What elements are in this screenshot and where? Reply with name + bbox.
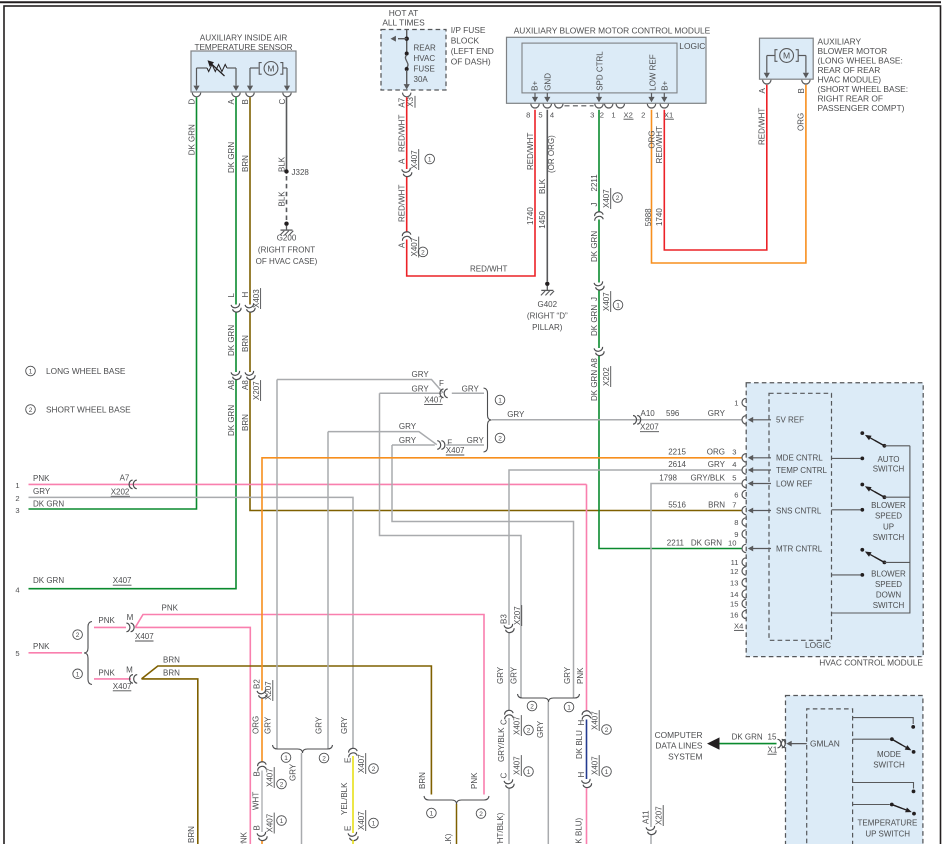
- wire GRY 596 to HVAC control module pin 2: [492, 419, 742, 421]
- svg-text:12: 12: [730, 567, 738, 576]
- svg-text:1: 1: [15, 481, 19, 490]
- svg-text:OF HVAC CASE): OF HVAC CASE): [256, 257, 318, 266]
- auto switch: [860, 431, 864, 435]
- svg-text:H: H: [577, 720, 586, 726]
- blower motor M symbol: [767, 55, 775, 57]
- connector X407 pin J (1) on DK GRN: [594, 281, 605, 291]
- svg-text:ALL TIMES: ALL TIMES: [382, 18, 425, 28]
- svg-text:X407: X407: [513, 716, 522, 735]
- svg-text:A8: A8: [227, 380, 236, 390]
- page border frame: [0, 1, 941, 3]
- svg-text:PNK: PNK: [33, 642, 50, 651]
- svg-text:LOGIC: LOGIC: [805, 640, 831, 650]
- brace splitting row 5 into (2) and (1): [84, 622, 92, 685]
- svg-text:6: 6: [734, 490, 738, 499]
- svg-text:GRY: GRY: [708, 409, 726, 418]
- svg-text:WHT: WHT: [251, 792, 260, 810]
- svg-text:DK BLU: DK BLU: [575, 730, 584, 759]
- ground G200: [284, 222, 288, 226]
- svg-text:LONG WHEEL BASE: LONG WHEEL BASE: [46, 366, 126, 376]
- svg-text:H: H: [241, 292, 250, 298]
- svg-text:A10: A10: [641, 409, 656, 418]
- svg-text:PNK: PNK: [162, 604, 179, 613]
- svg-text:E: E: [343, 758, 352, 763]
- module pin arrows and cups: [534, 93, 536, 98]
- svg-text:D: D: [188, 99, 197, 105]
- svg-text:GRY: GRY: [340, 716, 349, 734]
- wire DK BLU between H connectors: [586, 720, 588, 780]
- svg-text:PASSENGER COMPT): PASSENGER COMPT): [818, 103, 905, 113]
- svg-text:SPEED: SPEED: [875, 580, 902, 589]
- svg-text:COMPUTER: COMPUTER: [655, 730, 703, 740]
- svg-text:SWITCH: SWITCH: [873, 601, 905, 610]
- merged GRY wire down: [301, 753, 303, 844]
- aspirator motor M inside sensor: [250, 67, 259, 69]
- connector X202 pin A7 symbols: [129, 480, 133, 489]
- svg-text:DK GRN: DK GRN: [590, 305, 599, 336]
- svg-text:B+: B+: [660, 80, 669, 90]
- svg-text:X407: X407: [357, 754, 366, 773]
- svg-text:3: 3: [15, 506, 19, 515]
- svg-text:(OR ORG): (OR ORG): [547, 135, 556, 173]
- svg-text:GRY/BLK: GRY/BLK: [690, 474, 725, 483]
- svg-text:2: 2: [29, 407, 33, 414]
- svg-text:1: 1: [605, 769, 609, 776]
- svg-text:3: 3: [732, 448, 736, 457]
- connector X207 pins A8 A8 on DK GRN / BRN pair: [231, 371, 242, 381]
- svg-text:X407: X407: [446, 446, 465, 455]
- svg-text:1: 1: [616, 303, 620, 310]
- svg-text:DK GRN: DK GRN: [33, 500, 64, 509]
- svg-text:(RIGHT “D”: (RIGHT “D”: [527, 312, 568, 321]
- svg-text:X407: X407: [357, 811, 366, 830]
- svg-text:1740: 1740: [526, 207, 535, 225]
- svg-text:GRY: GRY: [412, 384, 430, 393]
- svg-text:BLOWER: BLOWER: [871, 501, 906, 510]
- svg-text:2: 2: [605, 727, 609, 734]
- svg-text:DK GRN: DK GRN: [691, 539, 722, 548]
- svg-text:M: M: [267, 64, 274, 74]
- svg-text:5: 5: [15, 649, 19, 658]
- svg-text:X407: X407: [135, 632, 154, 641]
- svg-text:GRY: GRY: [399, 422, 417, 431]
- svg-text:MDE CNTRL: MDE CNTRL: [776, 454, 823, 463]
- svg-text:PNK: PNK: [33, 474, 50, 483]
- svg-text:DK GRN: DK GRN: [227, 325, 236, 356]
- GMLAN pin cup and arrow: [781, 739, 785, 747]
- wire GRY upper branch to connector X407 pin F (1): [277, 380, 443, 393]
- svg-text:GND: GND: [543, 73, 552, 91]
- svg-text:X207: X207: [513, 606, 522, 625]
- svg-text:5: 5: [732, 474, 736, 483]
- HVAC control module dashed box: [746, 383, 923, 657]
- svg-text:BLOWER MOTOR: BLOWER MOTOR: [818, 46, 888, 56]
- svg-text:PNK: PNK: [98, 669, 115, 678]
- svg-text:8: 8: [526, 111, 530, 120]
- svg-text:DK GRN: DK GRN: [188, 124, 197, 155]
- svg-text:OF DASH): OF DASH): [451, 57, 491, 67]
- svg-text:X1: X1: [768, 745, 778, 754]
- svg-text:PNK: PNK: [470, 772, 479, 789]
- svg-text:2211: 2211: [590, 174, 599, 192]
- svg-text:X3: X3: [406, 96, 415, 106]
- svg-text:BRN: BRN: [418, 772, 427, 789]
- svg-text:RIGHT REAR OF: RIGHT REAR OF: [818, 93, 883, 103]
- svg-text:1: 1: [372, 821, 376, 828]
- svg-text:1: 1: [611, 111, 615, 120]
- svg-text:A: A: [397, 158, 406, 164]
- bottom brace merging GRY (1)/(2) into single GRY: [273, 745, 333, 753]
- svg-text:5V REF: 5V REF: [776, 416, 804, 425]
- wire DK GRN pin A: down to row 4: [235, 97, 237, 304]
- svg-text:2: 2: [372, 766, 376, 773]
- svg-text:X407: X407: [602, 292, 611, 311]
- svg-text:1: 1: [567, 705, 571, 712]
- svg-text:X202: X202: [111, 487, 130, 496]
- svg-text:MTR CNTRL: MTR CNTRL: [776, 544, 823, 553]
- GMLAN logic dashed box: [807, 709, 853, 844]
- wire DK GRN pin D: down then left to row 3: [29, 97, 197, 509]
- wire ORG 2215 to HVAC module pin 3 (MDE CNTRL): [262, 458, 742, 691]
- wire BLK pin C down to splice J328: [286, 97, 288, 169]
- svg-text:3: 3: [590, 111, 594, 120]
- branch (1) BRN continues right and down as BRN vertical: [142, 679, 198, 844]
- svg-text:2: 2: [322, 756, 326, 763]
- svg-text:M: M: [783, 51, 790, 61]
- svg-text:BRN: BRN: [187, 826, 196, 843]
- svg-text:BLOCK: BLOCK: [451, 36, 480, 46]
- GRY vertical from upper straight branch routed to middle brace: [380, 393, 522, 697]
- svg-text:PNK: PNK: [240, 831, 249, 844]
- svg-text:HVAC MODULE): HVAC MODULE): [818, 74, 882, 84]
- auxiliary inside air temperature sensor box: [191, 51, 296, 92]
- svg-text:2: 2: [527, 728, 531, 735]
- svg-text:X202: X202: [602, 367, 611, 386]
- svg-text:GRY: GRY: [708, 460, 726, 469]
- svg-text:LOGIC: LOGIC: [679, 41, 705, 51]
- svg-text:M: M: [127, 613, 134, 622]
- svg-text:UP SWITCH: UP SWITCH: [865, 829, 910, 838]
- svg-text:A: A: [227, 99, 236, 105]
- svg-text:7: 7: [732, 501, 736, 510]
- svg-text:A7: A7: [397, 97, 406, 107]
- svg-text:5516: 5516: [668, 501, 686, 510]
- svg-text:X407: X407: [590, 756, 599, 775]
- wire WHT between X407 connectors: [261, 771, 263, 833]
- svg-text:X407: X407: [410, 150, 419, 169]
- fuse output cup pin A7 connector X3: [403, 93, 411, 97]
- svg-text:2211: 2211: [667, 539, 685, 548]
- splice J328: [284, 169, 288, 173]
- svg-text:M: M: [126, 666, 133, 675]
- svg-text:2: 2: [498, 436, 502, 443]
- svg-text:A8: A8: [590, 358, 599, 368]
- svg-text:X407: X407: [513, 756, 522, 775]
- svg-text:X1: X1: [664, 111, 673, 120]
- svg-text:SWITCH: SWITCH: [873, 533, 905, 542]
- GRY vertical from upper branch (goes to bottom GRY brace): [276, 380, 278, 749]
- svg-text:AUXILIARY BLOWER MOTOR CONTROL: AUXILIARY BLOWER MOTOR CONTROL MODULE: [514, 26, 711, 36]
- sensor pin cups D A B C: [192, 93, 200, 97]
- svg-text:TEMPERATURE: TEMPERATURE: [857, 819, 917, 828]
- svg-text:2614: 2614: [668, 460, 686, 469]
- svg-text:10: 10: [728, 539, 736, 548]
- svg-text:A: A: [758, 88, 767, 94]
- svg-text:1798: 1798: [659, 474, 677, 483]
- dashed connector face segment: [565, 105, 594, 107]
- svg-text:RED/WHT: RED/WHT: [397, 185, 406, 222]
- svg-text:X407: X407: [424, 396, 443, 405]
- wire BLK(OR ORG) 1450 from GND pin 5 to ground G402: [546, 110, 548, 282]
- connector X207 pin B2 on ORG: [257, 689, 268, 699]
- svg-text:BRN: BRN: [241, 155, 250, 172]
- svg-text:J328: J328: [292, 168, 310, 177]
- svg-text:BLK: BLK: [538, 178, 547, 194]
- svg-text:DK GRN: DK GRN: [227, 142, 236, 173]
- blower speed up switch: [860, 483, 864, 487]
- svg-text:A: A: [397, 242, 406, 248]
- svg-text:9: 9: [734, 530, 738, 539]
- svg-text:GRY: GRY: [399, 436, 417, 445]
- svg-text:X407: X407: [590, 711, 599, 730]
- svg-text:X407: X407: [113, 576, 132, 585]
- svg-text:J: J: [590, 203, 599, 207]
- svg-text:BRN: BRN: [163, 656, 180, 665]
- svg-text:1450: 1450: [538, 210, 547, 228]
- svg-text:(BLK): (BLK): [444, 833, 453, 844]
- svg-text:YEL/BLK: YEL/BLK: [340, 782, 349, 815]
- svg-text:DOWN: DOWN: [876, 591, 902, 600]
- blower motor pin leads and cups A B: [766, 56, 768, 73]
- svg-text:PNK: PNK: [98, 616, 115, 625]
- svg-text:SPEED: SPEED: [875, 512, 902, 521]
- connector X207 pin A10 on GRY: [633, 416, 637, 425]
- svg-text:4: 4: [15, 586, 19, 595]
- svg-text:HVAC CONTROL MODULE: HVAC CONTROL MODULE: [819, 658, 923, 668]
- svg-text:F: F: [439, 379, 444, 388]
- svg-text:H: H: [577, 772, 586, 778]
- bottom brace merging BRN (1) and PNK (2): [424, 796, 489, 804]
- svg-text:BLOWER: BLOWER: [871, 570, 906, 579]
- connector X407 pin B (1) back to ORG: [257, 832, 268, 842]
- svg-text:14: 14: [730, 590, 738, 599]
- svg-text:C: C: [499, 719, 508, 725]
- connector X407 pin E (1): [348, 832, 359, 842]
- HVAC module input arrows and pin names: [752, 419, 771, 421]
- svg-text:1: 1: [280, 818, 284, 825]
- svg-text:C: C: [499, 773, 508, 779]
- svg-text:REAR OF REAR: REAR OF REAR: [818, 65, 881, 75]
- svg-text:TEMP CNTRL: TEMP CNTRL: [776, 466, 828, 475]
- GRY vertical from lower branch (goes to bottom GRY brace): [327, 432, 329, 749]
- svg-text:15: 15: [768, 733, 777, 742]
- svg-text:DK GRN: DK GRN: [33, 576, 64, 585]
- svg-text:1: 1: [29, 369, 33, 376]
- svg-text:B: B: [241, 99, 250, 104]
- svg-text:REAR: REAR: [414, 43, 436, 52]
- connector X407 pin C (2) on GRY: [503, 710, 514, 720]
- svg-text:GRY: GRY: [467, 436, 485, 445]
- svg-text:X407: X407: [113, 682, 132, 691]
- svg-text:BLK: BLK: [277, 191, 286, 207]
- wire GRY/BLK pin5 vertical: connector X207 pin A11: [646, 826, 657, 836]
- svg-text:2: 2: [616, 195, 620, 202]
- svg-text:X4: X4: [734, 622, 743, 631]
- svg-text:LOW REF: LOW REF: [776, 479, 813, 488]
- wire GRY pin4 vertical: connector X207 pin B3: [504, 624, 515, 634]
- variable resistor (sensor element): [197, 67, 208, 69]
- HVAC control module X1 dashed box (GMLAN): [786, 696, 923, 844]
- svg-text:2: 2: [600, 111, 604, 120]
- svg-text:AUTO: AUTO: [877, 455, 899, 464]
- svg-text:SNS CNTRL: SNS CNTRL: [776, 506, 822, 515]
- svg-text:UP: UP: [883, 522, 894, 531]
- svg-text:596: 596: [666, 409, 680, 418]
- svg-text:BLK: BLK: [277, 156, 286, 172]
- svg-text:GRY: GRY: [264, 716, 273, 734]
- svg-text:X407: X407: [602, 189, 611, 208]
- merged wire down with cut label: [456, 804, 458, 844]
- svg-text:DK GRN: DK GRN: [590, 231, 599, 262]
- svg-text:2: 2: [280, 782, 284, 789]
- svg-text:1: 1: [734, 398, 738, 407]
- temperature up switch: [853, 783, 914, 789]
- control module logic box: [522, 43, 677, 93]
- svg-text:A11: A11: [641, 810, 650, 824]
- svg-text:FUSE: FUSE: [414, 64, 435, 73]
- svg-text:ORG: ORG: [251, 716, 260, 734]
- connector X407 pin C (1): [504, 779, 515, 789]
- svg-text:2: 2: [530, 704, 534, 711]
- svg-text:HVAC: HVAC: [414, 54, 436, 63]
- svg-text:GRY/BLK: GRY/BLK: [497, 727, 506, 762]
- svg-text:DATA LINES: DATA LINES: [655, 741, 703, 751]
- svg-text:X403: X403: [252, 289, 261, 308]
- svg-text:2215: 2215: [668, 448, 686, 457]
- svg-text:L: L: [227, 293, 236, 298]
- svg-text:B: B: [797, 88, 806, 93]
- connector X403 on DK GRN / BRN pair, pins L and H: [231, 303, 242, 313]
- svg-text:BRN: BRN: [708, 501, 725, 510]
- svg-text:1: 1: [430, 811, 434, 818]
- svg-text:E: E: [343, 826, 352, 831]
- svg-text:GRY: GRY: [536, 720, 545, 738]
- svg-text:8: 8: [734, 518, 738, 527]
- svg-text:SHORT WHEEL BASE: SHORT WHEEL BASE: [46, 404, 131, 414]
- wire GRY/BLK 1798 to HVAC module pin 5 (LOW REF): [651, 484, 742, 828]
- svg-text:GRY: GRY: [510, 666, 519, 684]
- svg-text:1: 1: [498, 398, 502, 405]
- wire PNK row1 vertical with DK BLU segment: [586, 484, 588, 711]
- svg-text:(WHT/BLK): (WHT/BLK): [496, 812, 505, 844]
- svg-text:PNK: PNK: [576, 667, 585, 684]
- wire ORG 5988 from LOW REF to aux blower motor pin B: [652, 85, 806, 263]
- svg-text:A8: A8: [241, 380, 250, 390]
- fuse REAR HVAC FUSE 30A: [405, 52, 409, 56]
- svg-text:1: 1: [655, 111, 659, 120]
- legend (1) LONG WHEEL BASE: [26, 366, 36, 376]
- svg-text:X207: X207: [640, 423, 659, 432]
- switch common bus wire: [832, 446, 910, 613]
- connector X407 pin F (2) symbols: [437, 441, 441, 450]
- svg-text:MODE: MODE: [877, 750, 901, 759]
- svg-text:BRN: BRN: [241, 414, 250, 431]
- svg-text:2: 2: [76, 632, 80, 639]
- svg-text:DK GRN: DK GRN: [590, 370, 599, 401]
- svg-text:(LEFT END: (LEFT END: [451, 46, 494, 56]
- svg-text:RED/WHT: RED/WHT: [655, 126, 664, 163]
- connector X407 pin H (2): [581, 710, 592, 720]
- svg-text:LOW REF: LOW REF: [648, 54, 657, 91]
- svg-text:AUXILIARY: AUXILIARY: [818, 36, 862, 46]
- wire RED/WHT from fuse to control module pin 8: [406, 97, 408, 169]
- svg-text:1: 1: [76, 671, 80, 678]
- svg-text:GRY: GRY: [288, 763, 297, 781]
- connector X407 pin H (1): [582, 779, 593, 789]
- svg-text:SWITCH: SWITCH: [873, 760, 905, 769]
- svg-text:B+: B+: [531, 80, 540, 90]
- legend (2) SHORT WHEEL BASE: [26, 405, 36, 415]
- svg-text:15: 15: [730, 599, 738, 608]
- svg-text:AUXILIARY INSIDE AIR: AUXILIARY INSIDE AIR: [200, 33, 288, 42]
- svg-text:GRY: GRY: [507, 410, 525, 419]
- svg-text:HOT AT: HOT AT: [389, 8, 418, 18]
- ground G402: [545, 282, 549, 286]
- svg-text:(RIGHT FRONT: (RIGHT FRONT: [258, 245, 315, 254]
- svg-text:X407: X407: [410, 237, 419, 256]
- svg-text:(LONG WHEEL BASE:: (LONG WHEEL BASE:: [818, 55, 903, 65]
- svg-text:X2: X2: [624, 111, 633, 120]
- svg-text:TEMPERATURE SENSOR: TEMPERATURE SENSOR: [194, 43, 292, 52]
- wire DK GRN 15 X1 to computer data lines: [718, 743, 777, 745]
- svg-text:11: 11: [731, 558, 739, 567]
- svg-text:4: 4: [732, 460, 736, 469]
- svg-text:DK GRN: DK GRN: [732, 733, 763, 742]
- svg-text:G402: G402: [538, 300, 558, 309]
- svg-text:BRN: BRN: [163, 668, 180, 677]
- svg-text:1: 1: [284, 755, 288, 762]
- svg-text:GRY: GRY: [33, 487, 51, 496]
- svg-text:GRY: GRY: [462, 384, 480, 393]
- svg-text:GMLAN: GMLAN: [810, 739, 840, 749]
- svg-text:A7: A7: [120, 474, 130, 483]
- connector X407 pin F (1) symbols: [440, 389, 444, 398]
- svg-text:X207: X207: [264, 681, 273, 700]
- svg-text:30A: 30A: [414, 75, 429, 84]
- svg-text:G200: G200: [277, 234, 297, 243]
- HVAC module logic dashed box: [769, 393, 832, 640]
- svg-text:SPD CTRL: SPD CTRL: [596, 51, 605, 91]
- svg-text:5988: 5988: [644, 208, 653, 226]
- svg-text:2: 2: [15, 494, 19, 503]
- svg-text:RED/WHT: RED/WHT: [757, 108, 766, 145]
- branch (2) PNK continues right and down as PNK vertical: [135, 627, 250, 844]
- svg-text:RED/WHT: RED/WHT: [526, 133, 535, 170]
- svg-text:13: 13: [730, 578, 738, 587]
- wire RED/WHT 1740 from B+ pin 1 to aux blower motor pin A: [664, 85, 767, 250]
- svg-text:B: B: [252, 771, 261, 776]
- svg-text:5: 5: [538, 111, 542, 120]
- svg-text:RED/WHT: RED/WHT: [470, 265, 507, 274]
- mode switch: [853, 718, 914, 724]
- connector X407 pin B (2) ORG to WHT: [256, 761, 267, 771]
- svg-text:16: 16: [730, 610, 738, 619]
- svg-text:GRY: GRY: [496, 666, 505, 684]
- wire GRY 2614 to HVAC module pin 4 (TEMP CNTRL): [509, 470, 742, 625]
- branch (2) PNK to connector X407 pin M: [94, 626, 126, 628]
- svg-text:PILLAR): PILLAR): [532, 323, 563, 332]
- svg-text:DK GRN: DK GRN: [227, 405, 236, 436]
